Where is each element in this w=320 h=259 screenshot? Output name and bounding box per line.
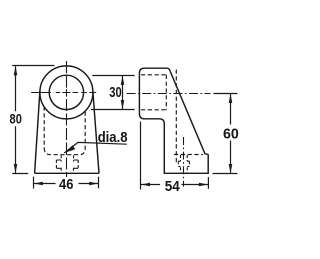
arrowhead 46 left (34, 182, 43, 186)
side view: hidden bore end (right) edge (165, 75, 167, 110)
side view: horizontal centerline (cylinder axis) (127, 93, 211, 95)
side view: outline (139, 68, 208, 173)
front view: horizontal centerline (31, 92, 96, 94)
arrowhead 80 top (14, 66, 18, 75)
dimension 60: dimension line (230, 94, 232, 173)
arrowhead 80 bottom (14, 164, 18, 173)
front view: trapezoid base left tangent side (35, 91, 40, 174)
front view: hidden counterbore right wall (77, 160, 79, 168)
dimension 80: top extension line (12, 65, 54, 67)
svg-text:dia.8: dia.8 (98, 130, 128, 146)
dimension 80: bottom extension line (12, 173, 28, 175)
svg-text:30: 30 (109, 84, 121, 101)
arrowhead 60 top (229, 94, 233, 103)
side view: hidden bore bottom edge (141, 109, 168, 111)
side view: hidden counterbore walls (178, 161, 189, 166)
front view: hidden cavity left wall (43, 107, 45, 149)
arrowhead 54 left (141, 183, 150, 187)
svg-text:46: 46 (59, 176, 73, 193)
dimension 54: dimension line (141, 184, 208, 186)
dimension 54: right extension tick (207, 177, 209, 189)
front view: hidden counterbore left wall (55, 160, 57, 168)
dimension 80: dimension line (15, 66, 17, 173)
dimension 30: extension lines (91, 76, 135, 110)
front view: trapezoid base right tangent side (93, 90, 99, 173)
front view: hidden counterbore shoulders (56, 160, 78, 168)
side view: hidden base top surface line (174, 154, 203, 156)
side view: hidden dia.8 hole walls (181, 155, 188, 173)
svg-text:80: 80 (10, 111, 22, 127)
side view: hidden counterbore shoulders (178, 161, 189, 166)
front view: inner bore circle (49, 75, 83, 109)
svg-text:60: 60 (223, 126, 239, 143)
front view: vertical centerline (66, 61, 68, 177)
front view: trapezoid base bottom edge (35, 172, 99, 174)
front view: hidden cavity bottom with corner arcs (44, 148, 85, 155)
dimension 54: left extension line (140, 122, 142, 190)
dimension 30: dimension line (122, 76, 124, 109)
dimension 46: dimension line (34, 183, 99, 185)
front view: hidden dia.8 hole left wall (60, 155, 62, 173)
arrowhead 30 bottom (121, 100, 125, 109)
arrowhead 46 right (89, 182, 98, 186)
side view: hidden bore top edge (141, 74, 166, 76)
svg-text:54: 54 (165, 178, 181, 195)
arrowhead 30 top (121, 76, 125, 85)
dimension 60: extension lines (213, 94, 238, 174)
side view: hidden web face vertical line (175, 70, 177, 163)
arrowhead 54 right (199, 183, 208, 187)
leader line for dia.8 (64, 142, 127, 153)
front view: hidden dia.8 hole right wall (73, 155, 75, 173)
front view: hidden cavity right wall (84, 112, 86, 149)
front view: outer circle of boss (40, 66, 93, 119)
arrowhead 60 bottom (229, 164, 233, 173)
arrowhead dia.8 leader (64, 145, 75, 153)
dimension 46: extension ticks (34, 177, 99, 189)
side view: hole vertical centerline (183, 137, 185, 187)
